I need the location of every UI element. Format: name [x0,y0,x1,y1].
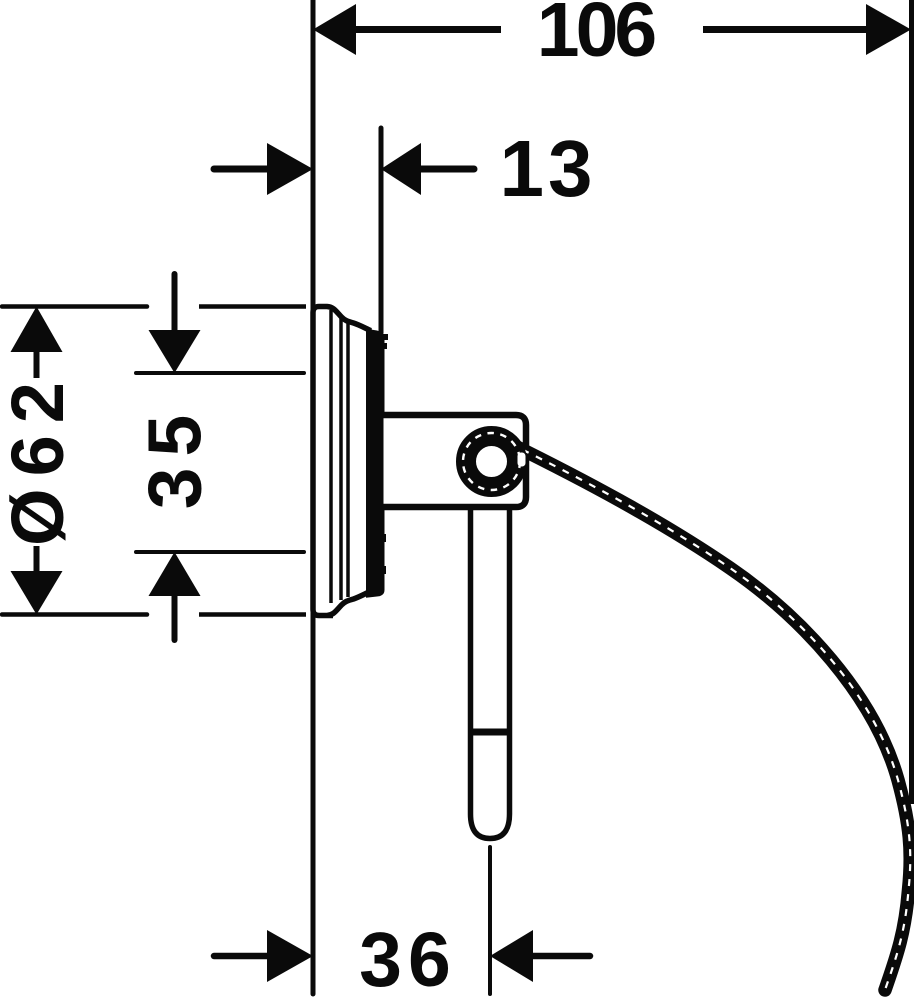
dimension 106 arrow left [313,4,356,55]
extension line 13 right [379,128,384,333]
dimension 13 tail right [421,166,474,173]
dimension 13 tail left [214,166,269,173]
band nub top 1 [382,334,388,340]
extension line left (wall line) [311,0,316,994]
extension O62 top [2,304,147,309]
dimension 36 arrow right [490,930,533,982]
dimension 36 tail right [533,953,590,960]
wall plate front band [366,329,385,598]
band nub bottom 2 [381,566,386,574]
extension O62 bottom [2,612,147,617]
roll pin post [471,507,510,839]
dimension 106 line left segment [354,26,501,33]
dimension 13 arrow right [381,143,421,195]
dimension O62 arrow bottom [11,571,63,615]
svg-text:106: 106 [537,0,656,73]
dimension O62 line bottom segment [34,546,40,571]
holder arm and block [384,415,527,507]
dimension O62 arrow top [11,307,63,353]
svg-text:36: 36 [359,917,457,1000]
extension 35 top [136,371,304,375]
dimension 36 tail left [214,953,268,960]
spring bow band [509,443,910,990]
roll pin cap joint line [468,729,512,736]
wall plate inner line 2 [339,317,343,600]
band nub top 2 [382,343,387,349]
pivot ring dashed circle [463,433,520,490]
dimension O62 line top segment [34,352,40,378]
wall plate inner line 3 [346,323,350,597]
pivot ring [466,436,517,487]
dimension 106 line right segment [703,26,868,33]
dimension 35 line top [172,274,178,330]
dimension 35 arrow top [149,330,201,373]
dimension 35 arrow bottom [149,552,201,596]
dimension 13 arrow left [267,143,313,195]
dimension 106 arrow right [866,4,911,55]
pivot ring bow notch [518,453,526,467]
svg-text:13: 13 [500,124,597,213]
extension line 36 right [488,847,492,994]
svg-text:35: 35 [133,404,217,509]
band nub bottom 1 [381,534,386,542]
dimension 36 arrow left [267,930,313,982]
svg-text:Ø62: Ø62 [0,370,79,546]
wall plate outline [313,307,369,616]
wall plate inner line 1 [329,310,333,603]
extension 35 bottom [136,550,304,554]
spring bow dashed centerline [509,443,910,990]
dimension 35 line bottom [172,596,178,640]
extension line 106 right [909,0,914,804]
